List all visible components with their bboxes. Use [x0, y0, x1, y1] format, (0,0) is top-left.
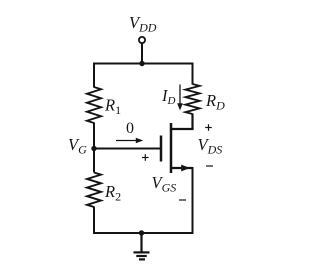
wire R1 to node VG	[93, 123, 95, 173]
transistor Q1 channel	[170, 123, 173, 173]
wire gate	[94, 148, 161, 150]
resistor R1	[87, 87, 101, 123]
label minus VDS	[206, 165, 213, 167]
node VG junction dot	[91, 146, 96, 151]
ground	[134, 233, 150, 259]
label plus VGS	[142, 154, 149, 161]
svg-text:VG: VG	[68, 135, 87, 157]
svg-text:R1: R1	[104, 96, 121, 118]
svg-text:VDD: VDD	[129, 13, 157, 35]
label minus VGS	[179, 199, 186, 201]
wire top rail	[94, 63, 193, 65]
transistor Q1 source lead with arrow	[171, 167, 193, 169]
svg-text:VDS: VDS	[198, 135, 223, 157]
wire source to bottom rail	[192, 167, 194, 234]
label plus VDS	[205, 124, 212, 131]
wire left branch upper	[93, 63, 95, 88]
wire bottom rail	[94, 232, 193, 234]
transistor Q1 gate bar	[160, 136, 163, 162]
resistor RD	[186, 84, 200, 114]
svg-text:0: 0	[126, 120, 134, 137]
resistor R2	[87, 173, 101, 208]
wire VDD terminal to top rail	[141, 43, 143, 63]
svg-text:RD: RD	[205, 91, 225, 113]
wire right branch upper (rail to RD)	[192, 63, 194, 85]
transistor Q1 drain lead	[171, 128, 194, 130]
junction dot top rail	[139, 61, 144, 66]
svg-text:VGS: VGS	[152, 173, 177, 195]
wire RD bottom to drain lead	[191, 114, 193, 130]
arrow gate current	[116, 138, 143, 144]
arrow ID drain current	[177, 85, 183, 111]
junction dot ground	[139, 230, 144, 235]
wire R2 to bottom rail	[93, 207, 95, 235]
svg-text:R2: R2	[104, 182, 121, 204]
node VDD terminal circle	[139, 37, 145, 43]
svg-text:ID: ID	[161, 86, 176, 107]
